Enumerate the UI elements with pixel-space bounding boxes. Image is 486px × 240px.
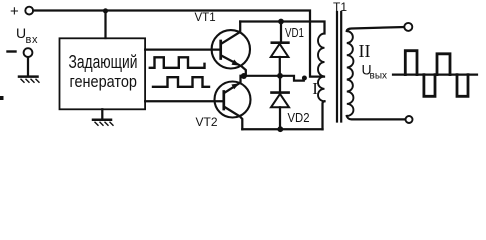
- node: VD1 cathode: [278, 19, 284, 25]
- input terminal circle (-): [24, 48, 33, 57]
- oscillator box: [60, 38, 146, 109]
- svg-text:VT1: VT1: [195, 12, 216, 24]
- transistor VT2: [215, 76, 251, 129]
- svg-text:вх: вх: [26, 34, 39, 46]
- diode VD1: [271, 22, 289, 76]
- wire: secondary bottom lead: [347, 116, 406, 119]
- svg-text:I: I: [312, 79, 318, 98]
- wire: - terminal to ground: [27, 57, 29, 75]
- output terminal top: [404, 23, 412, 31]
- transformer T1 primary winding I: [318, 34, 325, 102]
- edge mark: [0, 96, 4, 100]
- minus terminal label -: [8, 50, 16, 52]
- svg-text:VT2: VT2: [196, 115, 218, 129]
- ground (input): [19, 75, 38, 78]
- svg-text:T1: T1: [333, 0, 347, 14]
- svg-text:VD1: VD1: [285, 26, 304, 40]
- transformer core: [336, 12, 338, 122]
- transistor VT1: [212, 22, 250, 76]
- input terminal circle (+): [25, 7, 33, 15]
- wire: emitters midpoint: [244, 76, 304, 81]
- svg-text:Задающий: Задающий: [69, 52, 138, 72]
- wire: VT1 base: [145, 48, 220, 50]
- wire: primary bottom lead: [323, 101, 325, 129]
- output terminal bottom: [406, 116, 413, 123]
- drive waveform VT2: [153, 77, 209, 87]
- transformer secondary winding II: [347, 31, 354, 116]
- diode VD2: [271, 76, 289, 129]
- node: midpoint wire end: [302, 76, 307, 81]
- ground (oscillator): [101, 109, 103, 119]
- svg-text:вых: вых: [370, 71, 388, 82]
- output waveform zero line: [393, 73, 477, 75]
- node: emitters junction: [241, 73, 247, 79]
- svg-text:II: II: [359, 41, 371, 61]
- node: VD2 anode: [277, 126, 283, 132]
- wire: VT1 collector rail to primary top: [240, 22, 324, 34]
- wire: secondary top lead: [347, 27, 405, 31]
- wire: top rail down to oscillator box: [104, 11, 106, 38]
- node: diode midpoint: [277, 73, 283, 79]
- drive waveform VT1: [150, 57, 205, 68]
- svg-text:+: +: [10, 3, 19, 20]
- wire: + top rail and drop to primary center tap: [33, 11, 324, 77]
- wire: bottom rail: [242, 128, 322, 130]
- svg-text:VD2: VD2: [288, 110, 310, 125]
- wire: VT2 base: [145, 100, 223, 102]
- output waveform pulses: [405, 51, 417, 75]
- svg-text:генератор: генератор: [70, 73, 138, 91]
- node: top rail to oscillator: [103, 8, 108, 13]
